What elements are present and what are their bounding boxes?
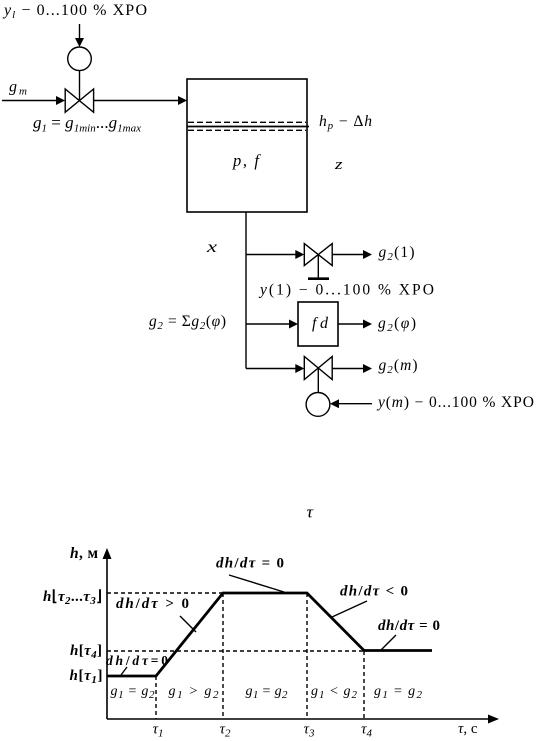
- svg-text:g1 = g2: g1 = g2: [246, 684, 289, 701]
- wire trunk from tank bottom: [245, 212, 247, 369]
- actuator A3: [306, 393, 330, 417]
- svg-text:y(m) − 0...100 % ХРО: y(m) − 0...100 % ХРО: [376, 394, 534, 411]
- svg-text:τ, с: τ, с: [458, 721, 478, 737]
- svg-text:h[τ4]: h[τ4]: [70, 643, 102, 661]
- level curve h(tau): [107, 593, 432, 676]
- tank level solid: [187, 126, 309, 128]
- svg-text:g2(1): g2(1): [379, 244, 415, 263]
- tank level dashed upper: [188, 121, 306, 123]
- svg-text:g1 = g2: g1 = g2: [111, 684, 156, 701]
- graph x-axis: [107, 718, 489, 720]
- svg-text:dh/dτ = 0: dh/dτ = 0: [378, 618, 440, 634]
- wire branch 2: [246, 323, 290, 325]
- leader dh/dtau < 0: [332, 601, 367, 617]
- wire branch 3: [246, 368, 296, 370]
- leader dh/dtau > 0: [180, 616, 196, 632]
- dashed level h[tau2..tau3]: [107, 592, 223, 594]
- svg-text:h[τ1]: h[τ1]: [70, 668, 103, 686]
- tank: [187, 79, 307, 212]
- wire branch 1: [246, 254, 296, 256]
- wire valve V3 out: [332, 368, 363, 370]
- valve V2: [304, 244, 332, 266]
- svg-text:z: z: [334, 157, 343, 173]
- valve V2 handle bar: [308, 277, 329, 280]
- valve V1: [65, 89, 93, 112]
- graph x-axis arrowhead: [488, 715, 499, 724]
- leader dh/dtau = 0 right: [381, 635, 396, 650]
- graph y-axis arrowhead: [103, 548, 112, 559]
- dashed vertical tau2: [222, 593, 224, 719]
- dashed vertical tau3: [306, 593, 308, 719]
- tank level dashed lower: [188, 129, 306, 131]
- wire actuator A1 to valve V1: [79, 71, 81, 101]
- svg-text:τ: τ: [307, 503, 314, 522]
- svg-text:fd: fd: [312, 315, 329, 332]
- valve V2 stem: [317, 255, 319, 279]
- valve V3: [304, 357, 332, 380]
- arrowhead into tank: [178, 96, 187, 105]
- dashed vertical tau1: [155, 676, 157, 719]
- wire into actuator A3: [339, 403, 372, 405]
- svg-text:x: x: [206, 239, 217, 256]
- wire inlet: [2, 100, 57, 102]
- dashed vertical tau4: [363, 651, 365, 719]
- actuator A1: [68, 47, 92, 71]
- dashed level h[tau4]: [107, 650, 364, 652]
- svg-text:p, f: p, f: [232, 151, 261, 170]
- valve V3 stem: [317, 369, 319, 393]
- graph y-axis: [106, 556, 108, 719]
- svg-text:dh/dτ = 0: dh/dτ = 0: [216, 556, 284, 572]
- arrowhead into valve V1: [56, 96, 65, 105]
- arrowhead into valve V2: [295, 250, 304, 259]
- arrowhead g2(1): [363, 250, 372, 259]
- arrowhead into actuator A3: [330, 399, 339, 408]
- arrowhead into valve V3: [295, 364, 304, 373]
- arrowhead into actuator A1: [75, 38, 84, 47]
- wire valve V2 out: [332, 254, 363, 256]
- svg-text:yl − 0...100 % ХРО: yl − 0...100 % ХРО: [2, 2, 147, 21]
- leader dh/dtau = 0 top: [229, 575, 284, 592]
- wire box fd out: [338, 323, 363, 325]
- arrowhead g2(m): [363, 364, 372, 373]
- flow box fd: [298, 302, 338, 346]
- arrowhead g2(phi): [363, 320, 372, 329]
- svg-text:g2(m): g2(m): [379, 357, 418, 376]
- svg-text:dh/dτ > 0: dh/dτ > 0: [116, 596, 189, 612]
- leader dh/dtau=0 small: [121, 667, 127, 675]
- svg-text:h, м: h, м: [70, 545, 98, 562]
- svg-text:dh/dτ < 0: dh/dτ < 0: [340, 584, 408, 600]
- wire valve V1 to tank: [94, 100, 179, 102]
- wire label to actuator A1: [79, 24, 81, 40]
- arrowhead into box fd: [289, 320, 298, 329]
- svg-text:g2(φ): g2(φ): [378, 315, 416, 334]
